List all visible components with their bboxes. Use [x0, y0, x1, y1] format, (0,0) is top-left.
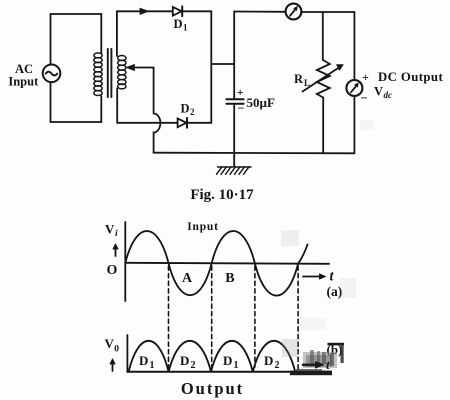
label DC Output plus — [361, 70, 370, 105]
svg-text:t: t — [326, 357, 330, 372]
wire: bottom return line — [154, 152, 355, 155]
svg-text:Input: Input — [8, 75, 39, 89]
wire: secondary bottom lead — [116, 88, 118, 122]
label B — [225, 271, 234, 286]
wire: RL branch top — [322, 12, 324, 60]
svg-text:dc: dc — [384, 90, 393, 100]
wire: filter branch upper — [233, 12, 235, 99]
svg-text:+: + — [362, 70, 369, 84]
wire: rectifier right vertical — [210, 11, 212, 123]
svg-text:D: D — [181, 102, 190, 116]
label D2 second hump — [180, 353, 196, 371]
input sine wave — [125, 231, 307, 296]
smudge artifact: t axis arrow — [303, 357, 330, 372]
label Input — [187, 221, 219, 233]
transformer T1 core — [108, 49, 112, 97]
svg-text:Output: Output — [181, 379, 244, 398]
svg-text:1: 1 — [183, 23, 188, 33]
dashed projection line 4 — [297, 266, 299, 369]
capacitor C1 50uF — [226, 99, 243, 104]
label D1 — [174, 17, 189, 33]
wire: primary loop left lower — [50, 83, 52, 122]
svg-text:−: − — [361, 91, 368, 105]
resistor RL (variable) — [303, 60, 344, 98]
svg-text:0: 0 — [114, 345, 119, 355]
output waveform axis horizontal — [127, 371, 328, 373]
svg-text:D: D — [174, 17, 183, 31]
svg-text:i: i — [115, 229, 118, 239]
wire: primary loop bottom — [51, 121, 102, 123]
label 50uF — [247, 95, 275, 110]
label t — [330, 269, 335, 285]
svg-text:O: O — [107, 263, 118, 278]
svg-text:V: V — [105, 336, 115, 351]
wire: right vertical lower — [353, 96, 355, 154]
svg-text:Fig. 10·17: Fig. 10·17 — [190, 187, 254, 203]
Vi up arrow — [113, 244, 119, 257]
label: AC Input — [8, 62, 39, 89]
wire: D2 to right corner — [187, 122, 211, 124]
wire: center tap horizontal — [133, 67, 154, 69]
V0 up arrow — [110, 359, 116, 372]
transformer T1 secondary winding — [118, 56, 126, 89]
svg-text:+: + — [237, 85, 244, 99]
center tap arrow — [127, 65, 135, 71]
smudge artifact: thick baseline — [290, 369, 332, 375]
label DC Output — [378, 70, 443, 84]
label D2 — [181, 102, 196, 118]
svg-text:2: 2 — [275, 360, 280, 371]
svg-text:D: D — [139, 353, 148, 368]
svg-text:B: B — [225, 271, 234, 286]
wire: secondary bottom horizontal to D2 — [117, 122, 177, 124]
label A — [182, 271, 193, 286]
wire: secondary top horizontal to D1 — [117, 10, 173, 12]
label Output — [181, 379, 244, 398]
svg-text:V: V — [105, 222, 115, 237]
input waveform axis horizontal — [125, 263, 329, 264]
wire: rectifier output tap — [211, 63, 234, 65]
wire: primary loop top — [51, 13, 102, 15]
svg-text:R: R — [294, 72, 304, 86]
dashed projection line 2 — [211, 266, 213, 367]
label V0 — [105, 336, 120, 354]
wire: top to ammeter — [234, 11, 286, 13]
svg-text:2: 2 — [191, 360, 196, 371]
ammeter M1 — [286, 4, 302, 20]
wire: primary loop right lower — [100, 96, 102, 122]
wire: primary loop left upper — [50, 14, 52, 64]
transformer T1 primary winding — [94, 53, 102, 96]
svg-text:D: D — [264, 353, 273, 368]
capacitor polarity + — [237, 85, 245, 115]
wire: secondary top lead — [116, 11, 118, 56]
svg-text:V: V — [374, 85, 383, 99]
svg-text:50µF: 50µF — [247, 95, 275, 110]
t axis arrow — [303, 274, 326, 280]
wire: ammeter to top right corner — [301, 11, 355, 13]
label Vi — [105, 222, 118, 239]
svg-text:Input: Input — [187, 221, 219, 233]
label D1 first hump — [139, 353, 155, 371]
label RL — [294, 72, 310, 88]
ground — [217, 167, 252, 175]
AC source — [43, 65, 61, 83]
svg-text:D: D — [180, 353, 189, 368]
output waveform axis vertical — [126, 335, 128, 372]
diode D2 — [178, 118, 187, 128]
wire: primary loop right upper — [100, 14, 102, 54]
faint print smudges — [281, 120, 374, 330]
dashed projection line 3 — [254, 266, 256, 367]
svg-text:D: D — [223, 353, 232, 368]
input waveform axis vertical — [124, 222, 126, 301]
label (a) — [327, 284, 343, 299]
svg-text:DC Output: DC Output — [378, 70, 443, 84]
svg-text:1: 1 — [150, 360, 155, 371]
label Vdc — [374, 85, 392, 101]
dashed projection line 1 — [168, 266, 170, 367]
wire: D1 to right corner — [182, 10, 211, 12]
voltmeter M2 — [346, 80, 362, 96]
current arrow on top wire — [140, 8, 149, 14]
smudge artifact: gray blotch — [282, 339, 337, 368]
wire: filter branch lower — [233, 104, 235, 166]
wire: center tap vertical with hop over D2 wire — [154, 68, 161, 153]
label D1 third hump — [223, 353, 239, 371]
svg-text:2: 2 — [190, 107, 195, 117]
diode D1 — [173, 6, 182, 16]
output rectified humps — [129, 341, 296, 372]
label D2 fourth hump — [264, 353, 280, 371]
svg-text:1: 1 — [234, 360, 239, 371]
svg-text:L: L — [304, 78, 310, 88]
label (b) smudged — [327, 342, 345, 363]
wire: right vertical upper — [353, 12, 355, 80]
svg-text:(a): (a) — [327, 284, 343, 299]
wire: RL branch bottom — [322, 98, 324, 154]
label O — [107, 263, 118, 278]
svg-text:−: − — [238, 101, 245, 115]
svg-text:A: A — [182, 271, 193, 286]
